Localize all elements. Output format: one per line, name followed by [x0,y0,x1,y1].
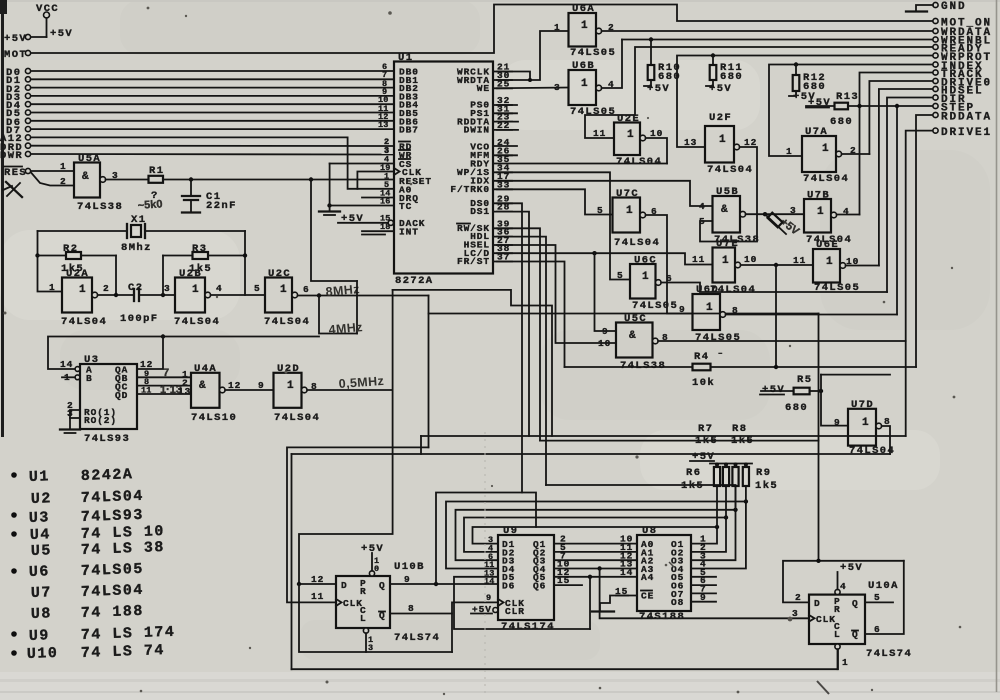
svg-text:14: 14 [60,359,73,370]
wire R4 line [565,366,693,368]
svg-text:U10A: U10A [868,580,899,592]
nand gate U5B [699,186,760,246]
parts list handwritten [11,466,175,663]
inverter U2C [254,268,310,328]
wire U10A Qbar feedback [865,561,904,634]
wire DWIN stub [493,129,518,131]
wire O2 up to pullup [691,518,726,552]
svg-text:74 LS 74: 74 LS 74 [81,642,166,662]
flipflop U10A 74LS74 [809,580,912,660]
wire PS0 stub [493,104,517,106]
svg-text:CLK: CLK [816,614,836,625]
svg-text:1: 1 [706,302,713,314]
svg-text:11: 11 [692,254,705,265]
svg-text:12: 12 [228,380,241,391]
connector RDDATA [933,112,992,124]
wire RDY long line from U2E [493,163,667,165]
crystal X1 [38,214,246,254]
svg-text:1: 1 [287,380,294,392]
svg-text:U2: U2 [31,490,53,508]
svg-text:14: 14 [620,567,633,578]
pullup +5V diagonal on U5B output [765,213,802,238]
node RESET branch junction [309,177,313,181]
wire D5 from Q5 loop [454,577,590,629]
connector INDEX [933,61,984,73]
nand gate U4A [178,363,237,424]
svg-text:U4: U4 [30,526,52,544]
svg-text:&: & [721,204,728,216]
svg-text:6: 6 [303,284,310,295]
svg-text:9: 9 [700,592,707,603]
svg-text:1k5: 1k5 [731,435,754,447]
node R1/C1 junction [189,177,193,181]
wire U7C out to U6D input [646,215,693,314]
wire U10B D input [299,583,336,585]
wire U5C out to DRIVE1 column [658,340,906,342]
svg-text:QD: QD [115,390,128,401]
svg-text:+5V: +5V [4,33,27,45]
svg-text:74LS04: 74LS04 [803,173,849,185]
svg-text:13: 13 [178,386,191,397]
wire RESET alt path down [311,180,357,282]
wire IDX to U5B pin4 [493,181,713,206]
wire oscillator left rail [38,231,63,292]
inverter U2A [49,268,110,328]
wire C2 to U2B [139,294,175,296]
svg-text:11: 11 [793,255,806,266]
wire 4MHz line to U3 clock A [48,337,319,370]
wire U8 CE to ground step [592,586,637,612]
svg-text:U2F: U2F [709,112,732,124]
svg-text:8242A: 8242A [81,466,134,485]
ground U3 [60,428,80,430]
wire 0.5MHz net [307,389,393,391]
svg-text:680: 680 [830,116,853,128]
wire WP/1S to U6C input [493,172,630,279]
wire HDSEL vertical [879,89,933,266]
resistor R9 [743,463,749,502]
svg-text:WE: WE [477,83,490,94]
svg-text:9: 9 [679,304,686,315]
svg-text:DB7: DB7 [399,125,419,136]
inverter U2F [684,112,757,176]
capacitor C1 [182,180,237,213]
inverter U6A [554,3,616,59]
inverter U6D [679,284,741,344]
svg-text:&: & [199,380,206,392]
connector WRDATA [933,27,992,39]
inverter U2E [593,113,663,168]
VCC power symbol [36,3,73,40]
wire U7E node drop to R4 line [775,265,777,367]
+5V to U10B preset [361,543,384,574]
wire 8MHz elbow down and east [428,296,430,448]
svg-text:A4: A4 [641,572,654,583]
svg-text:74LS93: 74LS93 [81,507,145,526]
wire MOT to MOT_ON [31,5,933,54]
pencil mark mid [669,562,674,567]
svg-text:74LS04: 74LS04 [81,582,145,601]
svg-text:U7: U7 [31,584,53,602]
wire U5A output to R1 [106,179,149,181]
svg-text:3: 3 [164,283,171,294]
svg-text:R7: R7 [698,423,713,435]
inverter U2B [164,268,223,328]
svg-text:4: 4 [699,201,706,212]
svg-text:5: 5 [617,270,624,281]
wire U7D out feedback loop [882,426,890,454]
connector D2 [6,79,394,96]
connector D3 [6,87,394,104]
svg-text:U9: U9 [29,627,51,645]
svg-text:74LS04: 74LS04 [274,412,320,424]
svg-text:1: 1 [842,657,849,668]
svg-text:&: & [82,171,89,183]
inverter U7D [834,399,895,457]
svg-text:8Mhz: 8Mhz [121,242,152,254]
fuzzy junction artifact on U10A clk [788,617,793,622]
wire reset-alt vertical x357 [356,281,358,334]
svg-text:U8: U8 [31,605,53,623]
svg-text:74LS74: 74LS74 [866,648,912,660]
svg-text:100pF: 100pF [120,313,159,325]
connector RES [4,167,31,180]
connector DWR [0,146,394,162]
wire R2 right leg down [115,256,117,296]
connector DRIVE0 [933,78,992,90]
svg-text:9: 9 [834,417,841,428]
svg-text:74LS93: 74LS93 [84,433,130,445]
svg-text:74LS05: 74LS05 [632,300,678,312]
svg-text:B: B [86,373,93,384]
wire oscillator right rail [244,231,246,295]
inverter U7C [597,188,660,249]
svg-text:74LS04: 74LS04 [614,237,660,249]
resistor R1 [137,165,164,212]
wire RES fork to U5A inputs [31,170,74,172]
wire R3 left leg [162,256,164,296]
svg-text:3: 3 [554,82,561,93]
svg-text:8: 8 [408,603,415,614]
svg-text:9: 9 [602,326,609,337]
wire INT stub [362,230,394,232]
svg-text:&: & [629,330,636,342]
wire U2B out to U2C [211,294,265,296]
svg-text:1: 1 [554,22,561,33]
svg-text:RES: RES [4,167,27,179]
svg-text:74LS04: 74LS04 [174,316,220,328]
wire TRACK vertical [860,73,934,215]
svg-text:2: 2 [60,176,67,187]
wire WRCLK jog to WRDTA [493,72,530,81]
wire U5B out to U7B input [746,213,804,215]
svg-text:9: 9 [258,380,265,391]
svg-text:74LS38: 74LS38 [77,201,123,213]
wire R1 to C1 node to RESET pin [163,179,394,181]
wire y436 long line [421,435,906,437]
svg-text:1k5: 1k5 [681,480,704,492]
page right edge shadow [996,0,998,692]
wire U10A Q stub [865,601,893,603]
svg-text:1: 1 [627,129,634,141]
svg-text:3: 3 [792,608,799,619]
wire WRDTA to U6A input [493,31,569,80]
svg-text:5: 5 [874,592,881,603]
svg-text:8MHz: 8MHz [325,282,360,299]
wire O8 stub [691,601,716,603]
wire U10A clear to bottom rail [837,649,839,669]
svg-text:4: 4 [840,581,847,592]
wire RO pins to ground [70,410,80,429]
wire F/TRK0 to U7C input [493,189,613,214]
svg-text:680: 680 [720,71,743,83]
svg-text:R3: R3 [192,243,207,255]
wire 8MHz drop to U10B clock [287,447,429,602]
wire long +5V style rail y454 [292,453,891,455]
wire HSEL drop to U5C pin10 [493,245,616,343]
svg-text:2: 2 [795,592,802,603]
wire O3 line to D3 [456,510,736,560]
wire y485 line [546,485,736,510]
resistor R8 [732,463,738,510]
connector MOT_ON [933,18,992,30]
counter U3 74LS93 [60,354,137,445]
wire TC tie [330,205,395,207]
wire O3 up to pullup [691,510,736,560]
svg-text:74LS05: 74LS05 [570,47,616,59]
svg-text:U3: U3 [29,509,51,527]
wire INDEX line to U7A [769,65,933,157]
connector D6 [6,112,394,129]
connector MOT [4,49,31,61]
FDC U1 8272A [394,52,493,287]
svg-text:R13: R13 [836,91,859,103]
svg-text:74S188: 74S188 [639,611,685,623]
svg-text:U1: U1 [29,468,51,486]
register U9 74LS174 [493,525,555,633]
resistor R13 [806,91,859,128]
wire U2E out to RDY line [646,138,667,164]
svg-text:+5V: +5V [647,83,670,95]
svg-text:9: 9 [486,593,491,603]
wire U10B Qbar [390,613,452,615]
svg-text:Q6: Q6 [533,581,546,592]
wire U7A out to DRIVE0 [842,153,870,155]
wire MFM stub [493,154,517,156]
svg-text:74LS04: 74LS04 [61,316,107,328]
connector D7 [6,120,394,137]
svg-text:3: 3 [790,205,797,216]
svg-text:F/TRK0: F/TRK0 [450,184,490,195]
svg-text:R: R [360,586,367,597]
+5V rail for resistor bank [710,463,752,465]
wire CLK tap [357,172,394,189]
svg-text:5: 5 [699,216,706,227]
svg-text:74LS05: 74LS05 [570,106,616,118]
svg-text:1: 1 [786,146,793,157]
svg-text:680: 680 [785,402,808,414]
wire Q1 to A0 [554,543,637,545]
svg-text:5: 5 [254,283,261,294]
svg-text:22nF: 22nF [206,200,237,212]
wire WE to U6B input [493,87,569,90]
wire STEP line [848,105,933,107]
svg-text:4MHz: 4MHz [328,320,363,337]
wire VCO stub [493,145,517,147]
connector TRACK [933,69,984,81]
wire CS/TC ground vertical [329,164,331,212]
inverter U7E [692,238,757,296]
wire STEP vertical [896,106,898,315]
wire QB to U4A [137,376,191,378]
wire Q4 drop to U10A clock [600,569,809,619]
svg-text:~5k0: ~5k0 [137,198,163,212]
svg-text:14: 14 [484,577,495,587]
svg-text:1: 1 [862,417,869,429]
svg-text:74LS04: 74LS04 [707,164,753,176]
connector HDSEL [933,86,984,98]
wire box left vertical to U10B D [299,290,393,584]
wire PS1 stub [493,112,517,114]
svg-text:9: 9 [404,574,411,585]
svg-text:74LS04: 74LS04 [616,156,662,168]
svg-text:+5V: +5V [709,83,732,95]
wire U7B out to TRACK [837,214,860,216]
resistor R5 [760,374,823,414]
pencil mark bottom right [817,681,829,694]
svg-text:R6: R6 [686,467,701,479]
staircase loop D1 [436,493,536,585]
svg-text:74LS174: 74LS174 [501,621,555,633]
svg-text:3: 3 [368,643,373,653]
wire DS1 drop [493,212,529,436]
wire U6A out = WRDATA [602,30,933,32]
wire HDL drop to y485 line [493,237,546,485]
inverter U7B [790,190,852,247]
connector DRD [0,137,394,154]
svg-text:74 188: 74 188 [81,603,145,622]
svg-text:74LS04: 74LS04 [81,488,145,507]
wire U10B D node down to CLR loop [299,584,452,652]
svg-text:1k5: 1k5 [755,480,778,492]
wire 8MHz net [298,295,429,297]
wire Qbar riser to U9 clock [452,602,498,652]
wire R5 node up/right [821,374,890,376]
svg-text:74LS04: 74LS04 [849,445,895,457]
wire Q3 to A2 [554,559,637,561]
capacitor C2 [120,282,159,325]
wire QC to U4A [137,385,191,387]
U1 right pin numbers [497,62,512,263]
svg-text:FR/ST: FR/ST [457,256,490,267]
wire O5 stub [691,576,716,578]
svg-text:GND: GND [941,1,967,13]
connector GND (top right) [906,1,967,13]
connector STEP [933,103,975,115]
wire U6E out to HDSEL [846,265,879,267]
svg-text:R5: R5 [797,374,812,386]
svg-text:DWR: DWR [0,150,23,162]
svg-text:6: 6 [874,624,881,635]
svg-text:10: 10 [744,254,757,265]
inverter U6B [554,60,616,118]
wire LC/D line to U7E and U5C [493,253,713,264]
resistor R10 [644,37,681,95]
wire WRENBL line [622,39,933,41]
U1 right pin names [450,67,490,268]
svg-text:O8: O8 [671,597,684,608]
svg-text:+5V: +5V [840,562,863,574]
svg-text:4: 4 [216,283,223,294]
svg-text:1: 1 [626,205,633,217]
U1 left pin names [394,67,432,238]
svg-text:INT: INT [399,227,419,238]
svg-text:+5V: +5V [50,28,73,40]
svg-text:1: 1 [822,143,829,155]
inverter U2D [274,363,321,424]
nand gate U5A [60,153,123,213]
svg-text:74LS10: 74LS10 [191,412,237,424]
wire O4 up to pullup [691,502,746,569]
wire QA riser to 4MHz line [137,337,163,370]
svg-text:2: 2 [103,283,110,294]
svg-text:CE: CE [641,591,654,602]
node R2 tap [35,253,39,257]
wire DS0 drop [493,203,522,492]
wire left loop vertical to bottom rail [291,454,293,669]
wire QD to U4A [137,393,191,395]
svg-text:1k5: 1k5 [695,435,718,447]
svg-text:11: 11 [593,128,606,139]
svg-text:1: 1 [581,20,588,32]
wire U10B clear pin13 [365,633,367,652]
svg-text:74LS05: 74LS05 [81,561,145,580]
svg-text:DS1: DS1 [470,206,490,217]
connector DRIVE1 [933,127,992,139]
page left border edge [1,0,4,437]
svg-text:Q: Q [379,580,386,591]
svg-text:R8: R8 [732,423,747,435]
svg-text:1: 1 [49,282,56,293]
svg-text:13: 13 [684,137,697,148]
resistor R3 [189,243,245,275]
wire WRPROT line [677,56,933,148]
svg-text:1: 1 [60,161,67,172]
inverter U6E [793,239,860,294]
svg-text:DWIN: DWIN [464,125,490,136]
wire O7 stub [691,592,716,594]
svg-text:15: 15 [557,575,570,586]
svg-text:RDDATA: RDDATA [941,112,992,124]
wire Q6 stub [554,584,582,586]
connector +5V (left) [4,33,47,45]
svg-text:13: 13 [378,120,389,130]
wire DIR vertical [887,98,933,293]
svg-text:TC: TC [399,201,412,212]
resistor R12 [789,62,826,103]
svg-text:Q: Q [852,598,859,609]
wire U4A out to U2D [225,389,273,391]
svg-text:U5: U5 [31,542,53,560]
connector DIR [933,94,967,106]
svg-text:L: L [360,613,367,624]
svg-text:MOT: MOT [4,49,27,61]
wire U7E out to U6E input [741,264,813,266]
svg-text:R4 ⁻: R4 ⁻ [694,351,725,363]
resistor R11 [706,53,743,95]
wire Q5 drop [589,577,591,629]
wire x818 long vertical [818,314,820,561]
